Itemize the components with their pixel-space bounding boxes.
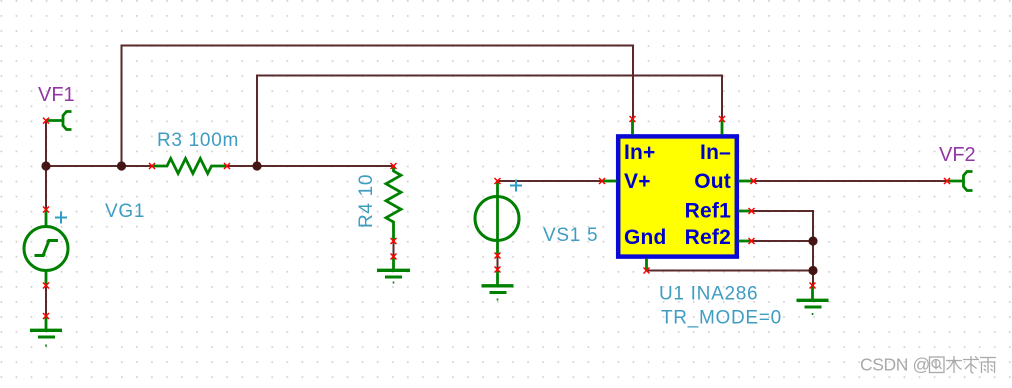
pin Ref2 stub (739, 240, 752, 243)
pin V+ stub (602, 180, 617, 183)
ground below VS1 (482, 270, 514, 300)
wire Gnd pin to vertical bus (647, 270, 814, 272)
pin Gnd stub (645, 259, 648, 271)
wire W1 top loop from node at (121.5,166) to In+ pin top (122, 46, 634, 167)
pin Out stub (739, 180, 754, 183)
junction node Ref2 bus (808, 236, 817, 245)
probe VF1 (46, 112, 72, 130)
svg-text:VG1: VG1 (105, 201, 145, 222)
svg-text:Ref2: Ref2 (685, 226, 731, 249)
svg-text:Gnd: Gnd (624, 226, 667, 249)
plus sign VS1 (510, 180, 522, 192)
svg-text:R4 10: R4 10 (356, 174, 377, 228)
op-amp U1 INA286 body (618, 136, 737, 256)
pin In- stub (721, 119, 724, 135)
wire Ref2 to vertical bus (752, 240, 814, 242)
svg-text:R3 100m: R3 100m (157, 130, 239, 151)
svg-text:TR_MODE=0: TR_MODE=0 (661, 308, 782, 329)
svg-text:VS1 5: VS1 5 (543, 225, 598, 246)
pin Ref1 stub (739, 210, 752, 213)
ground below Ref bus (797, 286, 829, 315)
junction node at rail x=257 (252, 161, 261, 170)
wire Out pin to VF2 probe (754, 180, 948, 182)
watermark CJK glyphs (930, 356, 997, 373)
junction node at rail x=46 (41, 161, 50, 170)
wire rail right segment R3 right terminal to R4 top (227, 165, 394, 167)
ground below R4 (377, 257, 410, 283)
resistor R4 (386, 166, 401, 241)
plus sign VG1 (55, 212, 67, 224)
wire Ref1 to vertical bus (752, 211, 814, 286)
wire main rail left segment VF1/VG1 to R3 left terminal (46, 121, 152, 167)
svg-text:CSDN @: CSDN @ (860, 355, 930, 375)
svg-text:In–: In– (700, 141, 731, 164)
svg-text:VF2: VF2 (939, 144, 976, 166)
junction node at rail x=121.5 (117, 161, 126, 170)
source VG1 (24, 210, 68, 286)
wire W2 second loop from node at (257,166) to In- pin top (257, 76, 722, 167)
wire R4 bottom to ground (393, 241, 395, 257)
svg-text:U1 INA286: U1 INA286 (659, 284, 758, 305)
source VS1 (475, 181, 519, 256)
wire VS1 plus to V+ pin (498, 180, 603, 182)
ground below VG1 (30, 316, 62, 346)
svg-text:Out: Out (694, 170, 731, 193)
svg-text:In+: In+ (624, 141, 656, 164)
pin In+ stub (631, 119, 634, 135)
wire VG1 top from rail down (45, 166, 47, 210)
wire VS1 bottom to ground (497, 256, 499, 270)
svg-text:Ref1: Ref1 (685, 200, 731, 223)
svg-text:VF1: VF1 (38, 84, 75, 106)
wire VG1 bottom to ground (45, 286, 47, 317)
probe VF2 (947, 172, 973, 191)
resistor R3 (152, 159, 227, 174)
junction node Gnd bus (808, 266, 817, 275)
terminal x marks (43, 116, 950, 319)
svg-text:V+: V+ (624, 170, 651, 193)
